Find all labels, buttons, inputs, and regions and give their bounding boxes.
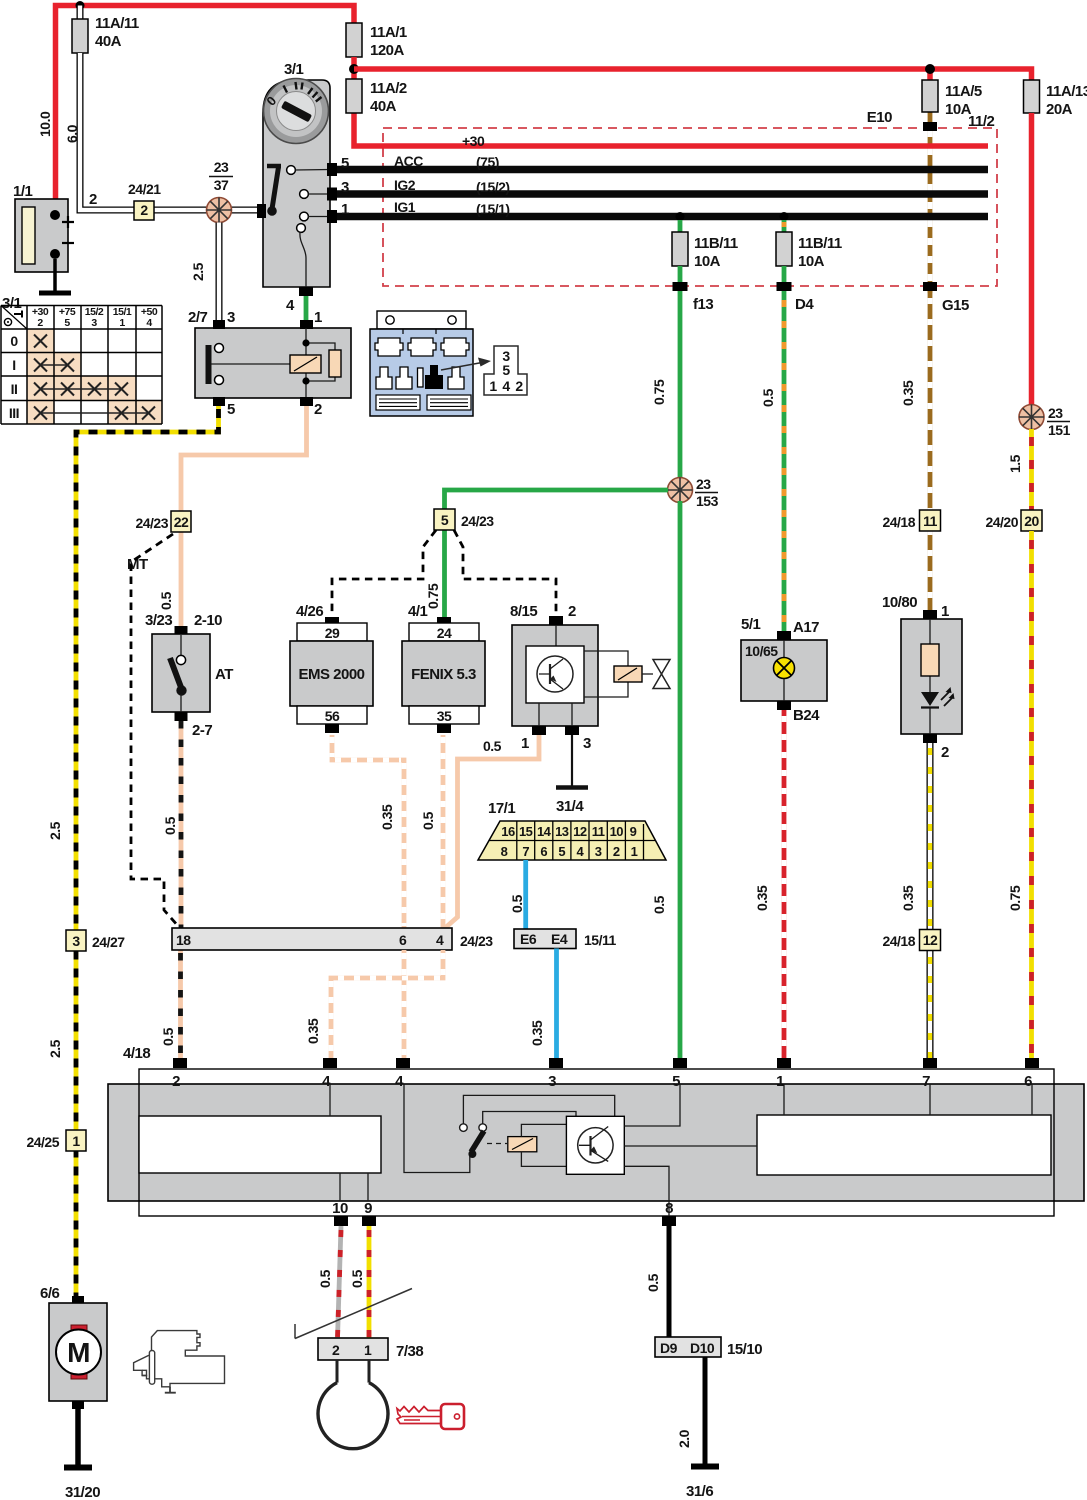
svg-text:0.75: 0.75 [1007, 885, 1023, 911]
svg-text:0.5: 0.5 [317, 1269, 333, 1288]
wire red battery 10.0 [37, 6, 354, 216]
svg-text:3/1: 3/1 [284, 61, 304, 78]
wire white 6.0 fuse to 24/21 [64, 53, 258, 210]
connector 15/11 E6 E4 [514, 929, 616, 949]
svg-text:11: 11 [923, 513, 938, 529]
svg-text:40A: 40A [95, 33, 122, 50]
svg-text:E6: E6 [520, 931, 537, 947]
svg-text:6: 6 [540, 844, 547, 859]
svg-text:1: 1 [341, 201, 349, 218]
svg-text:2-7: 2-7 [192, 722, 212, 739]
svg-text:12: 12 [923, 932, 938, 948]
fuse 11A/13 20A [1024, 80, 1087, 118]
svg-text:+30: +30 [462, 133, 485, 149]
svg-text:20: 20 [1024, 513, 1039, 529]
node +30 label [462, 133, 485, 149]
svg-text:1: 1 [72, 1133, 80, 1149]
svg-text:0.5: 0.5 [349, 1269, 365, 1288]
wire green ignition pin4 to relay pin1 [304, 296, 309, 321]
svg-text:2: 2 [314, 401, 322, 418]
wire peach dashed bar pin4 to ECU pin 4a [305, 950, 443, 1058]
svg-text:0.75: 0.75 [425, 583, 441, 609]
svg-text:0.5: 0.5 [509, 894, 525, 913]
svg-text:6.0: 6.0 [64, 124, 80, 143]
svg-text:EMS 2000: EMS 2000 [298, 666, 364, 683]
svg-text:6: 6 [1024, 1073, 1032, 1090]
switch 3/23 AT [145, 612, 233, 739]
connector bar 24/23 (18 6 4) [172, 928, 493, 950]
svg-text:4: 4 [502, 378, 510, 394]
fuse 11B/11 D4 [776, 220, 842, 313]
wire battery negative to ground [53, 259, 57, 291]
wire peach relay pin2 to connector 22 to switch 3/23 [158, 406, 307, 627]
svg-text:40A: 40A [370, 98, 397, 115]
svg-text:15/10: 15/10 [727, 1341, 762, 1358]
ECU 4/18 [108, 1045, 1084, 1226]
svg-text:4: 4 [286, 297, 295, 314]
svg-text:M: M [67, 1337, 90, 1368]
svg-text:7/38: 7/38 [396, 1343, 423, 1360]
svg-text:2/7: 2/7 [188, 309, 208, 326]
svg-text:II: II [11, 381, 18, 397]
svg-text:35: 35 [437, 708, 452, 724]
svg-text:D4: D4 [795, 296, 814, 313]
wire green splice to connector 5 to FENIX pin 24 [425, 490, 668, 617]
svg-text:10A: 10A [694, 253, 721, 270]
svg-text:4/26: 4/26 [296, 603, 323, 620]
svg-text:4: 4 [436, 932, 444, 948]
svg-text:12: 12 [573, 824, 587, 839]
svg-text:1: 1 [776, 1073, 784, 1090]
svg-text:2: 2 [515, 378, 523, 394]
svg-text:D9: D9 [660, 1340, 678, 1356]
junction on IG1 at f13 branch [676, 212, 685, 221]
svg-text:5/1: 5/1 [741, 616, 761, 633]
wire brown 0.35 E10 to G15 [928, 112, 933, 293]
svg-text:1/1: 1/1 [13, 183, 33, 200]
wire red +30 feed (11A/2 to bus) [354, 113, 988, 146]
svg-text:5: 5 [227, 401, 235, 418]
svg-text:0.5: 0.5 [420, 811, 436, 830]
svg-text:15/11: 15/11 [584, 932, 616, 948]
connector 24/20 pin 20 [985, 510, 1042, 531]
svg-text:III: III [9, 405, 19, 421]
junction dot red bus [349, 64, 359, 74]
svg-text:8: 8 [501, 844, 508, 859]
svg-text:2.5: 2.5 [190, 262, 206, 281]
ground 31/6 [686, 1467, 719, 1500]
svg-text:1: 1 [119, 317, 125, 329]
svg-text:24/18: 24/18 [882, 933, 915, 949]
wire peach 0.5 8/15 pin1 to bar pin 4 [445, 735, 539, 928]
svg-text:2: 2 [37, 317, 43, 329]
splice 23/37 [207, 159, 234, 223]
wire peach/black 0.5 pin 2-7 to connector 18 to ECU pin 2 [160, 721, 181, 1058]
svg-text:0.5: 0.5 [162, 816, 178, 835]
svg-text:0.75: 0.75 [651, 379, 667, 405]
svg-text:2.0: 2.0 [676, 1429, 692, 1448]
svg-text:10.0: 10.0 [37, 111, 53, 137]
wire IG2 (15/2) [336, 177, 988, 196]
junction on IG1 at D4 branch [780, 212, 789, 221]
svg-text:24/23: 24/23 [460, 933, 493, 949]
svg-text:31/6: 31/6 [686, 1483, 713, 1500]
svg-text:16: 16 [501, 824, 515, 839]
wire white 2.5 splice to relay pin 3 [190, 223, 219, 322]
wire blue 0.5 17/1 pin7 to E6 [509, 860, 526, 929]
svg-text:2: 2 [613, 844, 620, 859]
svg-text:15: 15 [519, 824, 533, 839]
svg-text:10/65: 10/65 [745, 643, 778, 659]
svg-text:5: 5 [64, 317, 70, 329]
svg-text:5: 5 [558, 844, 565, 859]
wire ACC (75) [336, 153, 988, 172]
svg-text:5: 5 [441, 512, 449, 528]
svg-text:4/1: 4/1 [408, 603, 428, 620]
svg-text:7: 7 [522, 844, 529, 859]
svg-text:31/20: 31/20 [65, 1484, 100, 1500]
svg-text:23: 23 [696, 476, 711, 492]
svg-text:9: 9 [364, 1200, 372, 1217]
svg-text:29: 29 [325, 625, 340, 641]
fuse 11B/11 f13 [672, 220, 738, 313]
svg-text:0: 0 [10, 333, 18, 349]
svg-text:3: 3 [548, 1073, 556, 1090]
svg-text:2: 2 [172, 1073, 180, 1090]
key icon [397, 1404, 464, 1429]
ignition switch position table 3/1 [1, 295, 162, 424]
svg-text:ACC: ACC [394, 153, 423, 169]
connector 17/1 [478, 800, 666, 860]
fuse 11A/1 120A [346, 23, 407, 59]
connector 24/18 pin 12 [882, 930, 940, 951]
svg-text:24/18: 24/18 [882, 514, 915, 530]
motor 6/6 [40, 1285, 107, 1409]
svg-text:0.35: 0.35 [754, 885, 770, 911]
connector 24/25 pin 1 [26, 1130, 86, 1151]
svg-text:E4: E4 [551, 931, 568, 947]
svg-text:2: 2 [941, 744, 949, 761]
svg-text:4/18: 4/18 [123, 1045, 150, 1062]
svg-text:3: 3 [227, 309, 235, 326]
wire green 0.5 splice to ECU pin 5 [651, 501, 680, 1058]
pin layout inset 3 5 / 1 4 2 [441, 346, 527, 395]
svg-text:1: 1 [941, 603, 949, 620]
svg-text:2.5: 2.5 [47, 1039, 63, 1058]
ignition switch 3/1 [257, 61, 337, 314]
relay 2/7 [188, 309, 351, 418]
fuse 11A/11 [72, 6, 139, 54]
svg-text:2.5: 2.5 [47, 821, 63, 840]
svg-text:9: 9 [630, 824, 637, 839]
ECU FENIX 5.3 4/1 [402, 603, 485, 733]
fuse 11A/5 10A [922, 80, 982, 118]
svg-text:24/23: 24/23 [461, 513, 494, 529]
connector housing (blue) [370, 311, 473, 416]
svg-text:24/23: 24/23 [135, 515, 168, 531]
svg-text:2: 2 [568, 603, 576, 620]
svg-text:0.5: 0.5 [483, 738, 502, 754]
junction dot battery top [76, 1, 85, 10]
MT alternative dashed wire [127, 534, 179, 927]
wire white/yellow 0.35 10/80 pin2 to ECU pin 7 [900, 743, 930, 1058]
ground 31/20 [64, 1468, 100, 1500]
svg-text:2: 2 [332, 1342, 340, 1358]
svg-text:14: 14 [537, 824, 552, 839]
svg-text:24/21: 24/21 [128, 181, 161, 197]
fuse 11A/2 40A [346, 79, 407, 115]
svg-text:3: 3 [583, 735, 591, 752]
svg-text:11A/5: 11A/5 [945, 83, 982, 100]
svg-text:0.35: 0.35 [900, 885, 916, 911]
svg-text:0.35: 0.35 [529, 1020, 545, 1046]
wire green 0.75 f13 to splice 23/153 [651, 291, 680, 479]
immobilizer antenna 7/38 [295, 1289, 423, 1449]
svg-text:5: 5 [341, 155, 349, 172]
svg-text:1.5: 1.5 [1007, 454, 1023, 473]
ground below battery [39, 291, 71, 296]
wire red/white 0.35 B24 to ECU pin 1 [754, 710, 784, 1058]
svg-text:18: 18 [176, 932, 191, 948]
svg-text:6: 6 [399, 932, 407, 948]
wire peach dashed bar pin6 to ECU pin 4b [402, 950, 407, 1058]
svg-text:3/23: 3/23 [145, 612, 172, 629]
svg-text:24/25: 24/25 [26, 1134, 59, 1150]
lamp unit 5/1 (10/65) [741, 616, 827, 724]
svg-text:B24: B24 [793, 707, 820, 724]
pin E10 [867, 109, 995, 131]
svg-text:31/4: 31/4 [556, 798, 584, 815]
svg-text:IG1: IG1 [394, 199, 416, 215]
connector 24/27 pin 3 [66, 930, 125, 951]
unit 11/2 dashed box [383, 128, 997, 286]
svg-text:11B/11: 11B/11 [798, 235, 842, 252]
svg-text:2-10: 2-10 [194, 612, 222, 629]
svg-text:1: 1 [364, 1342, 372, 1358]
svg-text:f13: f13 [693, 296, 713, 313]
svg-text:22: 22 [174, 514, 189, 530]
wire yellow/red 1.5 splice to 24/20 [1007, 429, 1032, 511]
starter motor outline [134, 1331, 225, 1393]
ECU EMS 2000 4/26 [290, 603, 373, 733]
svg-text:4: 4 [146, 317, 152, 329]
wire red bus to fuses 11A/5 and 11A/13 [354, 69, 1032, 80]
svg-text:3: 3 [91, 317, 97, 329]
svg-text:10: 10 [610, 824, 624, 839]
svg-text:6/6: 6/6 [40, 1285, 60, 1302]
svg-text:1: 1 [489, 378, 497, 394]
svg-text:23: 23 [1048, 405, 1063, 421]
svg-text:11A/1: 11A/1 [370, 24, 407, 41]
svg-text:(15/1): (15/1) [476, 201, 510, 217]
svg-text:2: 2 [89, 191, 97, 208]
svg-text:0.35: 0.35 [305, 1018, 321, 1044]
wire yellow/red 0.5 ECU pin9 to 7/38 pin1 [349, 1226, 369, 1338]
svg-text:56: 56 [325, 708, 340, 724]
svg-text:(75): (75) [476, 154, 499, 170]
svg-text:5: 5 [502, 362, 510, 378]
svg-text:4: 4 [395, 1073, 404, 1090]
svg-text:151: 151 [1048, 422, 1071, 438]
svg-text:A17: A17 [793, 619, 819, 636]
svg-text:10: 10 [332, 1200, 348, 1217]
svg-text:AT: AT [215, 666, 233, 683]
pin G15 [923, 282, 969, 314]
svg-text:24: 24 [437, 625, 452, 641]
battery 1/1 [13, 183, 74, 272]
svg-text:0.5: 0.5 [645, 1273, 661, 1292]
connector 24/21 pin 2 [128, 181, 161, 220]
svg-text:11A/11: 11A/11 [95, 15, 139, 32]
wire red 11A/13 down to splice 23/151 [1029, 113, 1035, 406]
svg-text:13: 13 [555, 824, 569, 839]
wire peach dashed FENIX 35 to bar pin 4 [420, 735, 443, 928]
svg-text:1: 1 [314, 309, 322, 326]
svg-text:3: 3 [72, 933, 80, 949]
svg-text:24/20: 24/20 [985, 514, 1018, 530]
connector 24/23 pin 5 [434, 509, 494, 530]
svg-text:23: 23 [214, 159, 229, 175]
wire yellow/red 0.75 24/20 to ECU pin 6 [1007, 531, 1032, 1058]
wire blue 0.35 E4 to ECU pin 3 [529, 949, 557, 1059]
svg-text:0.5: 0.5 [760, 388, 776, 407]
svg-text:7: 7 [922, 1073, 930, 1090]
ground 31/4 [556, 735, 588, 815]
svg-text:24/27: 24/27 [92, 934, 125, 950]
svg-text:11: 11 [592, 824, 605, 839]
svg-text:11/2: 11/2 [968, 113, 995, 130]
wire yellow/black 2.5 relay pin5 to motor 6/6 [47, 406, 219, 1296]
wire IG1 (15/1) [336, 199, 988, 218]
svg-text:FENIX 5.3: FENIX 5.3 [411, 666, 476, 683]
wire green/orange 0.5 D4 to A17 [760, 291, 784, 631]
wire grey/red 0.5 ECU pin10 to 7/38 pin2 [317, 1226, 341, 1338]
connector 24/18 pin 11 [882, 510, 940, 531]
connector 15/10 D9 D10 [655, 1337, 762, 1358]
svg-text:4: 4 [322, 1073, 331, 1090]
svg-text:8/15: 8/15 [510, 603, 537, 620]
svg-text:11A/2: 11A/2 [370, 80, 407, 97]
svg-text:2: 2 [140, 202, 148, 218]
unit 10/80 [882, 594, 962, 761]
svg-text:(15/2): (15/2) [476, 179, 510, 195]
svg-text:37: 37 [214, 177, 229, 193]
svg-text:D10: D10 [690, 1340, 715, 1356]
svg-text:0.5: 0.5 [651, 895, 667, 914]
wire brown 0.35 G15 to 10/80 pin 1 [900, 291, 930, 610]
svg-text:0.5: 0.5 [160, 1027, 176, 1046]
wire black 0.5 ECU pin8 to D9 [645, 1226, 669, 1337]
svg-text:3: 3 [595, 844, 602, 859]
junction dot at 11A/5 [925, 64, 935, 74]
svg-text:IG2: IG2 [394, 177, 416, 193]
svg-text:0.5: 0.5 [158, 591, 174, 610]
wire red 11A/1 to 11A/2 [351, 57, 357, 79]
svg-text:3: 3 [341, 179, 349, 196]
dashed branch connector5 to 8/15 pin 2 [454, 530, 556, 616]
wire black 2.0 D10 to ground [676, 1357, 705, 1464]
connector 24/23 pin 22 [135, 511, 191, 532]
wire peach dashed EMS 56 to bar pin 6 [332, 735, 404, 928]
svg-text:10/80: 10/80 [882, 594, 917, 611]
svg-text:0.35: 0.35 [900, 380, 916, 406]
svg-text:1: 1 [631, 844, 638, 859]
svg-text:0.35: 0.35 [379, 804, 395, 830]
svg-text:E10: E10 [867, 109, 892, 126]
svg-text:8: 8 [665, 1200, 673, 1217]
svg-text:120A: 120A [370, 42, 405, 59]
svg-text:11B/11: 11B/11 [694, 235, 738, 252]
svg-text:20A: 20A [1046, 101, 1073, 118]
svg-text:17/1: 17/1 [488, 800, 515, 817]
splice 23/151 [1019, 405, 1071, 439]
splice 23/153 [668, 476, 719, 509]
svg-text:5: 5 [672, 1073, 680, 1090]
svg-text:1: 1 [521, 735, 529, 752]
unit 8/15 [510, 603, 670, 752]
dashed branch connector5 to EMS pin 29 [332, 530, 436, 616]
svg-text:11A/13: 11A/13 [1046, 83, 1087, 100]
svg-text:I: I [12, 357, 15, 373]
svg-text:G15: G15 [942, 297, 969, 314]
svg-text:153: 153 [696, 493, 719, 509]
wire black motor to ground 31/20 [75, 1409, 81, 1467]
svg-text:10A: 10A [798, 253, 825, 270]
